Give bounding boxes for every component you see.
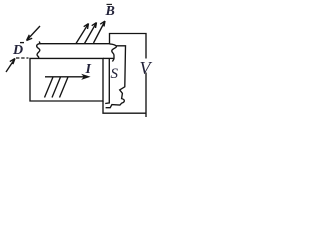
current arrow I xyxy=(45,75,88,78)
label I xyxy=(86,62,91,78)
label V xyxy=(140,58,151,79)
B label overbar xyxy=(107,3,113,5)
contact top squiggle xyxy=(110,44,117,62)
bottom wire xyxy=(103,101,146,113)
D dimension top arrow xyxy=(27,26,41,41)
right break line (wavy cut) xyxy=(106,46,126,108)
hatch line 3 xyxy=(60,77,69,98)
dashed extension top xyxy=(20,42,25,44)
B field arrow 2 xyxy=(85,23,97,44)
contact left edge xyxy=(105,59,109,104)
plate top back edge xyxy=(40,43,110,45)
label B xyxy=(106,4,115,20)
hatch line 1 xyxy=(45,77,54,98)
front face rectangle xyxy=(30,58,103,101)
top front edge extension to contact xyxy=(103,57,114,59)
B field arrow 1 xyxy=(76,24,89,44)
label D xyxy=(13,43,23,59)
hatch line 2 xyxy=(52,77,61,98)
D dimension bottom arrow xyxy=(6,59,15,73)
B field arrow 3 xyxy=(94,21,106,43)
left break squiggle xyxy=(37,41,40,58)
label S xyxy=(111,66,119,83)
dashed extension bottom xyxy=(16,57,29,59)
right wire below V label xyxy=(145,73,147,118)
top wire to voltmeter xyxy=(110,34,147,59)
